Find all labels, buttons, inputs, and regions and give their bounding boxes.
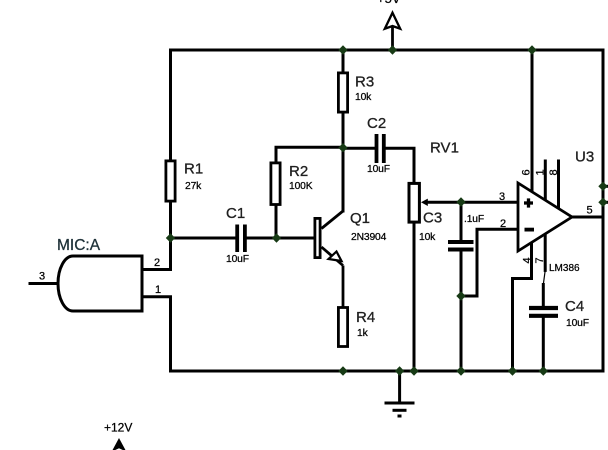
svg-text:10k: 10k: [355, 92, 372, 103]
wire C4 top stub: [542, 285, 545, 306]
svg-text:10uF: 10uF: [566, 318, 589, 329]
resistor R3: [338, 73, 374, 112]
ground symbol: [385, 403, 415, 416]
junction node stub-lower/right-rail: [598, 198, 607, 207]
wire R3 bottom to collector node: [342, 114, 345, 148]
junction node +5V/top-rail: [388, 45, 397, 54]
svg-text:LM386: LM386: [549, 263, 580, 274]
wire C4 bottom to ground rail: [542, 318, 545, 371]
op-amp U3: [518, 149, 594, 275]
resistor R1: [166, 161, 203, 202]
junction node RV1/bottom-rail: [409, 366, 418, 375]
wire top rail: [171, 49, 604, 52]
svg-text:6: 6: [521, 169, 533, 175]
resistor R2: [271, 163, 313, 205]
wire MIC pin1 to bottom rail: [142, 297, 171, 371]
wire right rail stub upper: [603, 185, 608, 188]
svg-text:C4: C4: [565, 298, 584, 315]
junction node R3/top-rail: [338, 45, 347, 54]
wire R2 top elbow: [276, 147, 343, 161]
svg-text:10uF: 10uF: [367, 164, 390, 175]
wire U3 output pin5 to right rail: [572, 216, 603, 219]
wire collector node to C2 left plate: [343, 147, 375, 150]
svg-text:3: 3: [39, 271, 45, 283]
svg-text:2: 2: [154, 257, 160, 269]
wire C3 bottom plate to node: [460, 251, 463, 296]
svg-text:2N3904: 2N3904: [351, 232, 387, 243]
svg-text:C1: C1: [226, 205, 245, 222]
svg-text:Q1: Q1: [350, 210, 370, 227]
svg-text:4: 4: [522, 257, 534, 263]
transistor Q1: [315, 210, 387, 308]
svg-text:1: 1: [535, 169, 547, 175]
svg-text:C3: C3: [423, 210, 442, 227]
svg-text:10k: 10k: [419, 232, 436, 243]
junction node C3/bottom-rail: [456, 366, 465, 375]
junction node pin4/bottom-rail: [508, 366, 517, 375]
wire right rail stub lower: [603, 201, 608, 204]
wire U3 pin8 stub: [557, 161, 560, 209]
potentiometer RV1: [409, 140, 459, 223]
junction node R1/C1/mic: [166, 233, 175, 242]
wire MIC pin3 lead: [30, 282, 59, 285]
svg-text:100K: 100K: [289, 181, 313, 192]
power +12V symbol: [104, 421, 132, 450]
wire RV1 wiper to node and U3 pin3: [427, 201, 518, 204]
svg-text:8: 8: [548, 169, 560, 175]
wire U3 pin7 stub: [544, 235, 547, 271]
junction node wiper/pin3/C3: [456, 197, 465, 206]
wire C1 right plate to R2 node: [247, 237, 277, 240]
wire ground stub: [398, 371, 401, 403]
junction node pin6/top-rail: [527, 45, 536, 54]
svg-text:R2: R2: [289, 163, 308, 180]
svg-text:+5V: +5V: [377, 0, 401, 6]
wire C3 node down to ground rail: [460, 296, 463, 371]
svg-text:R1: R1: [184, 161, 203, 178]
wire R3 top to rail: [342, 50, 345, 72]
svg-text:5: 5: [587, 205, 593, 217]
capacitor C3: [419, 210, 484, 250]
wire bottom rail: [171, 370, 604, 373]
svg-text:.1uF: .1uF: [464, 214, 484, 225]
svg-text:MIC:A: MIC:A: [57, 237, 101, 254]
wire R2 node to Q1 base: [277, 237, 314, 240]
wire right rail: [602, 50, 605, 371]
svg-text:R3: R3: [355, 74, 374, 91]
wire U3 pin4 to ground rail: [513, 243, 532, 371]
svg-text:1k: 1k: [357, 328, 369, 339]
wire node to C3 top plate: [460, 202, 463, 241]
resistor R4: [338, 308, 375, 347]
power +5V symbol: [377, 0, 401, 50]
wire R2 bottom to node: [275, 206, 278, 238]
wire R1 bottom to node: [169, 203, 172, 239]
svg-text:+12V: +12V: [104, 421, 132, 435]
capacitor C1: [226, 205, 249, 265]
svg-text:2: 2: [500, 218, 506, 230]
svg-text:1: 1: [155, 284, 161, 296]
svg-text:3: 3: [499, 191, 505, 203]
wire C2 right plate to RV1 top elbow: [385, 148, 414, 182]
capacitor C4: [529, 298, 589, 329]
wire U3 pin6 from top rail: [531, 50, 534, 192]
wire node to C1 left plate: [171, 237, 236, 240]
junction node ground/bottom-rail: [395, 366, 404, 375]
svg-text:27k: 27k: [185, 181, 202, 192]
svg-text:RV1: RV1: [430, 140, 459, 157]
wire left vertical to R1 top: [169, 50, 172, 160]
junction node stub-upper/right-rail: [598, 182, 607, 191]
junction node C4/bottom-rail: [539, 366, 548, 375]
wire node to U3 pin2 L-shape: [461, 229, 518, 296]
wire collector node down to Q1 collector: [342, 148, 345, 212]
capacitor C2: [367, 115, 390, 175]
svg-text:U3: U3: [575, 149, 594, 166]
junction node R4/bottom-rail: [338, 366, 347, 375]
wire MIC pin2 to node: [142, 238, 171, 270]
junction node R3/C2/collector: [338, 143, 347, 152]
svg-text:10uF: 10uF: [226, 254, 249, 265]
wire RV1 bottom to ground rail: [413, 224, 416, 372]
svg-text:R4: R4: [356, 309, 375, 326]
svg-text:C2: C2: [367, 115, 386, 132]
svg-text:7: 7: [534, 257, 546, 263]
wire U3 pin7 thin link to C4: [543, 270, 545, 284]
wire U3 pin1 stub: [544, 161, 547, 200]
junction node C3/pin2 wire: [456, 291, 465, 300]
junction node C1/R2/base: [272, 233, 281, 242]
microphone MIC:A: [57, 237, 142, 311]
